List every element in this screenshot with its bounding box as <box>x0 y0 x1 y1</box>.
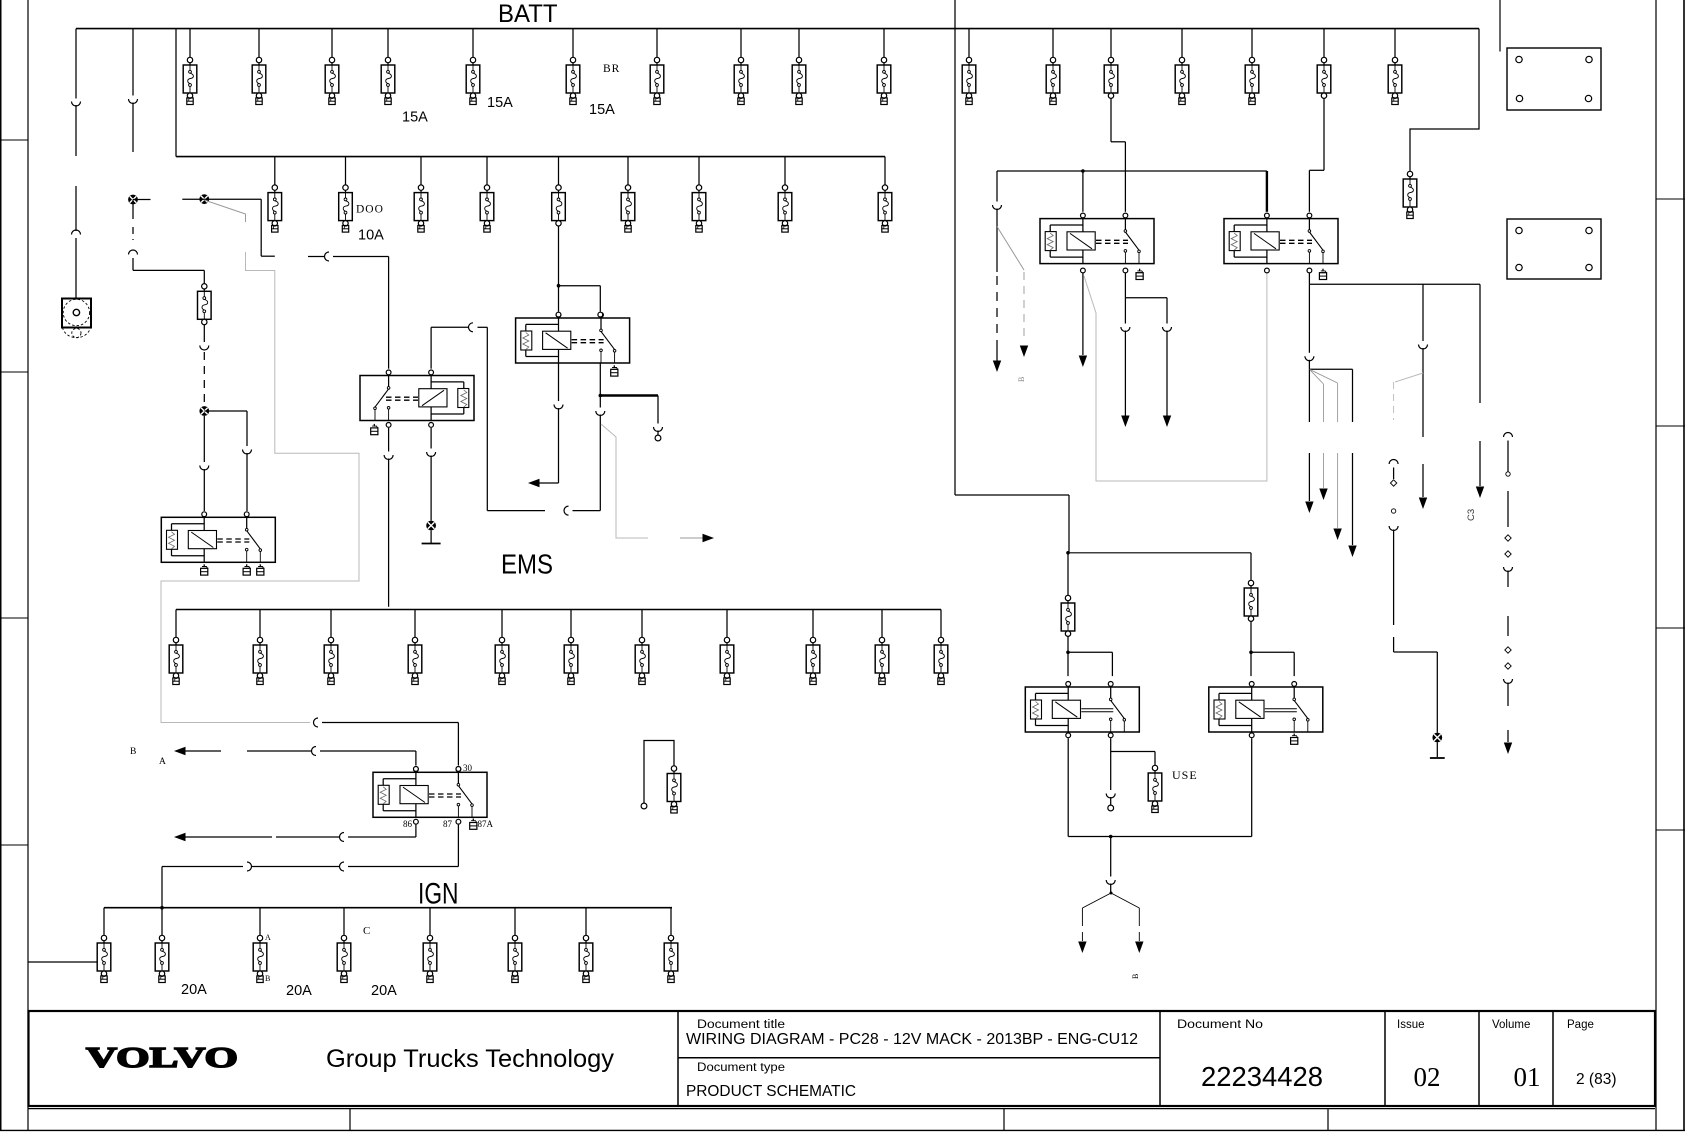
svg-text:Document No: Document No <box>1177 1019 1263 1031</box>
svg-text:Group Trucks Technology: Group Trucks Technology <box>326 1045 614 1073</box>
svg-text:20A: 20A <box>371 983 397 999</box>
svg-text:EMS: EMS <box>501 549 553 580</box>
svg-text:87A: 87A <box>478 819 494 829</box>
svg-text:30: 30 <box>463 763 473 773</box>
svg-text:B: B <box>130 747 136 757</box>
svg-text:C3: C3 <box>1466 509 1477 521</box>
svg-text:Document type: Document type <box>697 1062 785 1074</box>
svg-text:15A: 15A <box>402 110 428 126</box>
svg-text:Issue: Issue <box>1397 1019 1425 1031</box>
svg-text:Document title: Document title <box>697 1019 785 1031</box>
svg-text:10A: 10A <box>358 228 384 244</box>
svg-text:C: C <box>363 925 370 937</box>
svg-text:Page: Page <box>1567 1019 1594 1031</box>
svg-text:DOO: DOO <box>356 204 384 216</box>
svg-text:WIRING DIAGRAM - PC28 - 12V MA: WIRING DIAGRAM - PC28 - 12V MACK - 2013B… <box>686 1031 1138 1048</box>
svg-text:Volume: Volume <box>1492 1019 1530 1031</box>
svg-text:BATT: BATT <box>498 1 558 28</box>
svg-text:A: A <box>159 757 166 767</box>
svg-text:B: B <box>265 974 270 983</box>
svg-text:20A: 20A <box>181 982 207 998</box>
svg-text:PRODUCT SCHEMATIC: PRODUCT SCHEMATIC <box>686 1083 856 1100</box>
svg-text:B: B <box>1131 974 1140 979</box>
svg-text:A: A <box>265 933 271 942</box>
svg-text:IGN: IGN <box>418 878 459 911</box>
svg-text:15A: 15A <box>487 95 513 111</box>
svg-text:USE: USE <box>1172 768 1198 782</box>
svg-text:VOLVO: VOLVO <box>86 1042 238 1074</box>
svg-text:15A: 15A <box>589 102 615 118</box>
svg-text:2 (83): 2 (83) <box>1576 1071 1617 1088</box>
svg-text:20A: 20A <box>286 983 312 999</box>
svg-text:01: 01 <box>1514 1062 1541 1092</box>
svg-text:B: B <box>1017 377 1026 382</box>
svg-text:22234428: 22234428 <box>1201 1061 1323 1092</box>
svg-text:87: 87 <box>443 819 453 829</box>
svg-text:BR: BR <box>603 63 620 75</box>
svg-text:86: 86 <box>403 819 413 829</box>
svg-text:02: 02 <box>1414 1062 1441 1092</box>
